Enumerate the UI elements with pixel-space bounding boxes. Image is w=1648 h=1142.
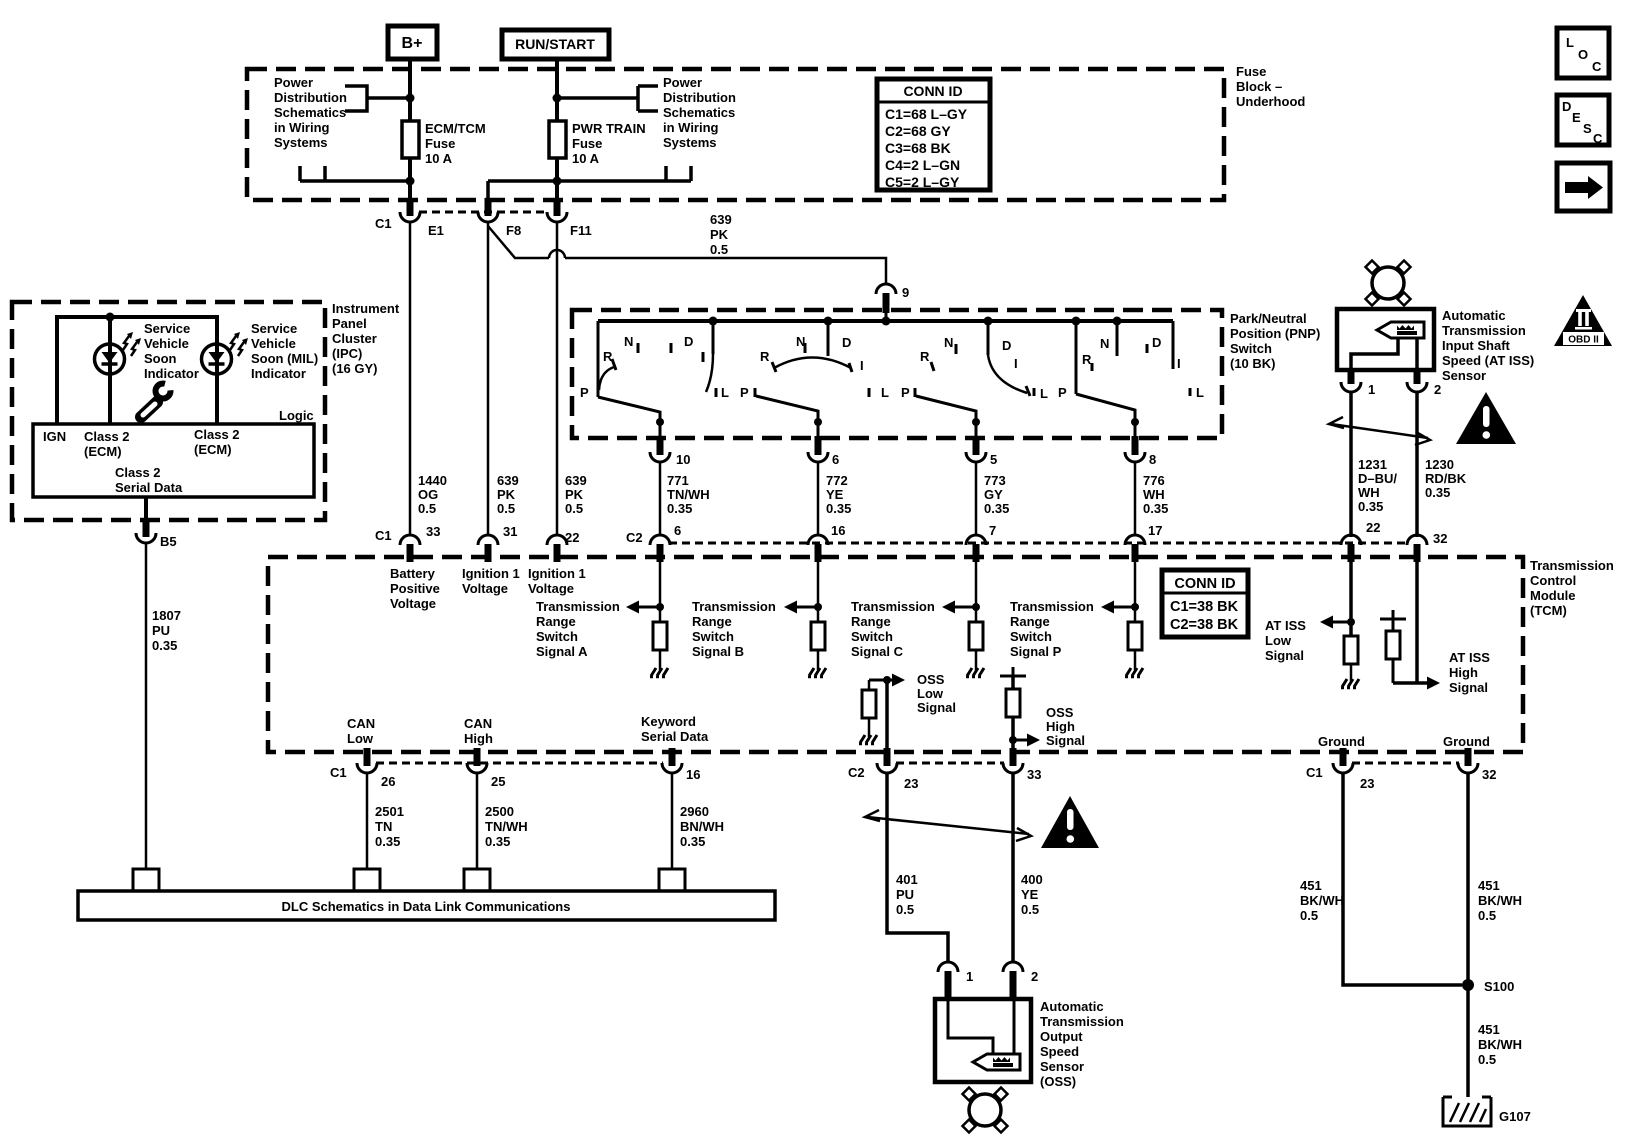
switch section A contacts	[598, 321, 716, 397]
svg-text:Logic: Logic	[279, 408, 314, 423]
svg-text:2501: 2501	[375, 804, 404, 819]
svg-text:Voltage: Voltage	[390, 596, 436, 611]
svg-text:C3=68 BK: C3=68 BK	[885, 140, 951, 156]
svg-text:CAN: CAN	[464, 716, 492, 731]
label switch P letters	[1058, 335, 1204, 400]
svg-text:Service: Service	[251, 321, 297, 336]
svg-text:TN/WH: TN/WH	[485, 819, 528, 834]
svg-text:OSS: OSS	[1046, 705, 1074, 720]
svg-text:Automatic: Automatic	[1040, 999, 1104, 1014]
svg-text:RD/BK: RD/BK	[1425, 471, 1467, 486]
svg-text:C2=38 BK: C2=38 BK	[1170, 617, 1239, 633]
svg-text:0.5: 0.5	[896, 902, 914, 917]
pin 22 TCM left	[547, 530, 579, 562]
svg-text:1807: 1807	[152, 608, 181, 623]
svg-text:AT ISS: AT ISS	[1449, 650, 1490, 665]
svg-text:PK: PK	[710, 227, 729, 242]
label class 2 ECM 1	[84, 429, 130, 459]
svg-text:E1: E1	[428, 223, 444, 238]
svg-text:Ground: Ground	[1443, 734, 1490, 749]
svg-text:400: 400	[1021, 872, 1043, 887]
label 639 PK 0.5 (F8)	[497, 473, 519, 516]
label ignition 1 voltage (31)	[462, 566, 520, 596]
wire 639 PK (F8 to TCM 31)	[487, 221, 490, 536]
label 451 BK/WH 0.5 right	[1478, 878, 1522, 923]
label 400 YE 0.5	[1021, 872, 1043, 917]
label TCM	[1530, 558, 1614, 618]
switch section B contacts	[755, 321, 869, 397]
svg-text:Fuse: Fuse	[1236, 64, 1266, 79]
svg-text:(10 BK): (10 BK)	[1230, 356, 1276, 371]
svg-text:C1: C1	[375, 216, 392, 231]
svg-text:TN/WH: TN/WH	[667, 487, 710, 502]
svg-text:Transmission: Transmission	[1010, 599, 1094, 614]
svg-text:TN: TN	[375, 819, 392, 834]
svg-text:5: 5	[990, 452, 997, 467]
svg-text:Ignition 1: Ignition 1	[462, 566, 520, 581]
ground signal B	[808, 668, 826, 677]
wire 401 PU	[887, 772, 948, 963]
pin 17 TCM	[1125, 523, 1162, 562]
svg-text:16: 16	[831, 523, 845, 538]
wire 773 GY	[975, 461, 978, 536]
svg-text:(ECM): (ECM)	[84, 444, 122, 459]
svg-text:L: L	[721, 385, 729, 400]
svg-text:(IPC): (IPC)	[332, 346, 362, 361]
pin 31 TCM	[478, 524, 517, 562]
label 2960 BN/WH 0.35	[680, 804, 724, 849]
label 1807 PU 0.35	[152, 608, 181, 653]
svg-text:L: L	[881, 385, 889, 400]
label 451 BK/WH 0.5 ground leg	[1478, 1022, 1522, 1067]
svg-text:Low: Low	[1265, 633, 1292, 648]
svg-text:Schematics: Schematics	[663, 105, 735, 120]
label OSS sensor	[1040, 999, 1124, 1089]
resistor signal B	[811, 622, 825, 650]
OBD II symbol	[1554, 295, 1612, 346]
svg-text:Range: Range	[692, 614, 732, 629]
svg-text:23: 23	[904, 776, 918, 791]
pin 25 TCM	[467, 748, 505, 789]
ground OSS low	[859, 735, 877, 744]
wire PWR TRAIN fuse bottom	[553, 158, 562, 204]
svg-text:776: 776	[1143, 473, 1165, 488]
OSS sensor box	[935, 999, 1031, 1082]
svg-text:Low: Low	[347, 731, 374, 746]
svg-text:D: D	[1562, 99, 1571, 114]
svg-text:BN/WH: BN/WH	[680, 819, 724, 834]
svg-text:Module: Module	[1530, 588, 1576, 603]
warning triangle OSS	[1041, 796, 1099, 848]
label power distribution left	[274, 75, 347, 150]
svg-text:Switch: Switch	[536, 629, 578, 644]
svg-text:33: 33	[426, 524, 440, 539]
svg-text:32: 32	[1482, 767, 1496, 782]
svg-text:33: 33	[1027, 767, 1041, 782]
svg-text:Fuse: Fuse	[572, 136, 602, 151]
svg-text:Battery: Battery	[390, 566, 436, 581]
wrench icon	[141, 376, 178, 418]
wire 776 WH	[1134, 461, 1137, 536]
svg-text:L: L	[1196, 385, 1204, 400]
signal A input arrow	[626, 562, 664, 623]
loc nav box	[1557, 28, 1609, 78]
svg-text:C1: C1	[375, 528, 392, 543]
svg-text:ECM/TCM: ECM/TCM	[425, 121, 486, 136]
pin 33 TCM C2	[1003, 748, 1041, 782]
label class 2 ECM 2	[194, 427, 240, 457]
wire 400 YE	[1011, 772, 1015, 963]
svg-text:Low: Low	[917, 686, 944, 701]
svg-text:Systems: Systems	[274, 135, 327, 150]
label 2500 TN/WH 0.35	[485, 804, 528, 849]
svg-text:Signal: Signal	[1046, 733, 1085, 748]
label 773 GY 0.35	[984, 473, 1009, 516]
svg-text:PU: PU	[896, 887, 914, 902]
svg-text:23: 23	[1360, 776, 1374, 791]
svg-text:0.5: 0.5	[710, 242, 728, 257]
B+ supply box	[388, 26, 437, 59]
svg-text:Range: Range	[1010, 614, 1050, 629]
svg-text:P: P	[1058, 385, 1067, 400]
svg-text:Fuse: Fuse	[425, 136, 455, 151]
pin 2 AT ISS	[1407, 370, 1441, 397]
fuse ECM/TCM 10A	[402, 121, 486, 166]
label transmission range switch signal C	[851, 599, 935, 659]
wire return to right bracket	[488, 166, 691, 204]
label PNP switch	[1230, 311, 1320, 371]
svg-text:25: 25	[491, 774, 505, 789]
switch section C contacts	[915, 321, 1034, 397]
label AT ISS high signal	[1449, 650, 1490, 695]
svg-text:772: 772	[826, 473, 848, 488]
wire 2960 BN/WH	[671, 772, 674, 869]
svg-text:0.35: 0.35	[667, 501, 692, 516]
ground G107	[1443, 1097, 1531, 1126]
wire resistor OSS low to ground	[868, 718, 871, 737]
svg-text:0.35: 0.35	[680, 834, 705, 849]
svg-text:1231: 1231	[1358, 457, 1387, 472]
label service vehicle soon (MIL) indicator	[251, 321, 318, 381]
svg-text:N: N	[796, 334, 805, 349]
svg-text:Switch: Switch	[1010, 629, 1052, 644]
svg-text:PK: PK	[497, 487, 516, 502]
RUN/START supply box	[502, 30, 609, 59]
wire IPC ignition bus	[57, 313, 217, 425]
svg-text:Vehicle: Vehicle	[251, 336, 296, 351]
svg-text:0.5: 0.5	[418, 501, 436, 516]
pin 5 PNP	[966, 436, 997, 467]
ground AT ISS low	[1341, 679, 1359, 688]
svg-text:D: D	[1002, 338, 1011, 353]
svg-text:C1=38 BK: C1=38 BK	[1170, 599, 1239, 615]
svg-text:0.5: 0.5	[1478, 1052, 1496, 1067]
svg-text:Signal: Signal	[1265, 648, 1304, 663]
OSS high signal node	[1000, 667, 1040, 766]
svg-text:2960: 2960	[680, 804, 709, 819]
svg-text:C4=2 L–GN: C4=2 L–GN	[885, 157, 960, 173]
DLC schematics box	[78, 891, 775, 920]
transmission control module dashed box	[268, 557, 1523, 752]
svg-text:GY: GY	[984, 487, 1003, 502]
OSS low signal node	[869, 674, 905, 767]
wire 1230 RD/BK	[1415, 391, 1419, 537]
label OSS low signal	[917, 672, 956, 715]
svg-text:451: 451	[1478, 878, 1500, 893]
svg-text:22: 22	[1366, 520, 1380, 535]
wire AT ISS internal 1	[1351, 338, 1398, 370]
CONN ID table fuse block	[877, 79, 990, 190]
svg-text:YE: YE	[1021, 887, 1039, 902]
svg-text:0.35: 0.35	[1143, 501, 1168, 516]
wire OSS internal 1	[948, 999, 993, 1053]
svg-text:C5=2 L–GY: C5=2 L–GY	[885, 174, 960, 190]
svg-text:G107: G107	[1499, 1109, 1531, 1124]
svg-text:YE: YE	[826, 487, 844, 502]
svg-text:10 A: 10 A	[425, 151, 453, 166]
svg-text:1440: 1440	[418, 473, 447, 488]
wire LED1 branch	[108, 317, 112, 424]
svg-text:OG: OG	[418, 487, 438, 502]
wire OSS internal 2	[1013, 999, 1016, 1053]
svg-text:Position (PNP): Position (PNP)	[1230, 326, 1320, 341]
svg-text:Signal B: Signal B	[692, 644, 744, 659]
svg-text:Systems: Systems	[663, 135, 716, 150]
label AT ISS sensor	[1442, 308, 1534, 383]
svg-text:D: D	[842, 335, 851, 350]
svg-text:7: 7	[989, 523, 996, 538]
pin 26 TCM	[357, 748, 395, 789]
wire resistor A to ground	[659, 650, 662, 670]
svg-text:Positive: Positive	[390, 581, 440, 596]
pin 6 PNP	[808, 436, 839, 467]
svg-text:26: 26	[381, 774, 395, 789]
svg-text:0.35: 0.35	[1425, 485, 1450, 500]
svg-text:D: D	[684, 334, 693, 349]
CONN ID table TCM	[1162, 570, 1248, 637]
svg-text:0.35: 0.35	[485, 834, 510, 849]
terminal B5 wire at DLC	[133, 869, 159, 890]
wire 639 PK branch F8 to PNP pin 9 with hop	[488, 226, 886, 285]
instrument panel cluster dashed box	[12, 302, 325, 520]
label 1231 D-BU/WH 0.35	[1358, 457, 1397, 514]
svg-text:0.35: 0.35	[1358, 499, 1383, 514]
svg-text:S100: S100	[1484, 979, 1514, 994]
svg-text:Speed: Speed	[1040, 1044, 1079, 1059]
svg-text:32: 32	[1433, 531, 1447, 546]
svg-text:WH: WH	[1143, 487, 1165, 502]
pin 8 PNP	[1125, 436, 1156, 467]
label switch C letters	[901, 335, 1048, 401]
svg-text:BK/WH: BK/WH	[1300, 893, 1344, 908]
connector row C2 TCM bottom	[848, 763, 1004, 780]
svg-text:Schematics: Schematics	[274, 105, 346, 120]
label keyword serial data	[641, 714, 709, 744]
connector C1 fuse block row	[419, 211, 548, 214]
svg-text:Class 2: Class 2	[194, 427, 240, 442]
gear icon OSS	[962, 1087, 1007, 1132]
connector row C1 TCM bottom left	[330, 763, 663, 780]
signal P input arrow	[1101, 562, 1139, 623]
wire switch A wiper to pin 10	[598, 397, 664, 438]
wire switch C wiper to pin 5	[916, 396, 980, 438]
warning triangle AT ISS	[1456, 392, 1516, 444]
node power distribution left bracket	[345, 86, 410, 111]
label 771 TN/WH 0.35	[667, 473, 710, 516]
svg-text:AT ISS: AT ISS	[1265, 618, 1306, 633]
svg-text:Signal: Signal	[1449, 680, 1488, 695]
svg-text:10: 10	[676, 452, 690, 467]
wire resistor P to ground	[1134, 650, 1137, 670]
svg-text:0.5: 0.5	[565, 501, 583, 516]
label 639 PK 0.5 (branch)	[710, 212, 732, 257]
svg-text:Voltage: Voltage	[462, 581, 508, 596]
resistor signal C	[969, 622, 983, 650]
wire resistor AT ISS low to ground	[1350, 664, 1353, 681]
svg-text:PWR TRAIN: PWR TRAIN	[572, 121, 646, 136]
svg-text:0.5: 0.5	[1478, 908, 1496, 923]
label switch A letters	[580, 334, 729, 400]
svg-text:C: C	[1592, 59, 1602, 74]
svg-text:RUN/START: RUN/START	[515, 36, 595, 52]
svg-text:R: R	[1082, 352, 1092, 367]
wire 451 BK/WH right	[1466, 772, 1470, 1097]
indicator lamp SVS MIL (LED2)	[202, 332, 249, 374]
twisted pair marker AT ISS	[1329, 417, 1430, 445]
wire 2500 TN/WH	[476, 772, 479, 869]
wire 451 BK/WH left	[1343, 772, 1462, 985]
svg-text:CAN: CAN	[347, 716, 375, 731]
resistor OSS high	[1006, 689, 1020, 717]
wire resistor C to ground	[975, 650, 978, 670]
svg-text:Indicator: Indicator	[144, 366, 199, 381]
wire AT ISS internal 2	[1415, 338, 1419, 370]
wire 771 TN/WH	[659, 461, 662, 536]
svg-text:0.35: 0.35	[375, 834, 400, 849]
svg-text:Transmission: Transmission	[1442, 323, 1526, 338]
svg-text:Switch: Switch	[692, 629, 734, 644]
pin 16 TCM bottom	[662, 748, 700, 782]
wire 1807 PU	[145, 542, 148, 869]
svg-text:Transmission: Transmission	[1530, 558, 1614, 573]
wire 772 YE	[817, 461, 820, 536]
label transmission range switch signal A	[536, 599, 620, 659]
svg-text:(TCM): (TCM)	[1530, 603, 1567, 618]
wire switch B wiper to pin 6	[756, 396, 822, 438]
svg-text:(ECM): (ECM)	[194, 442, 232, 457]
label power distribution right	[663, 75, 736, 150]
svg-text:1: 1	[966, 969, 973, 984]
label 639 PK 0.5 (F11)	[565, 473, 587, 516]
resistor signal P	[1128, 622, 1142, 650]
svg-text:B+: B+	[402, 35, 423, 52]
svg-text:N: N	[1100, 336, 1109, 351]
svg-text:N: N	[944, 335, 953, 350]
pin 33 TCM	[375, 524, 440, 562]
svg-text:Speed (AT ISS): Speed (AT ISS)	[1442, 353, 1534, 368]
svg-text:DLC Schematics in Data Link Co: DLC Schematics in Data Link Communicatio…	[282, 899, 571, 914]
svg-text:BK/WH: BK/WH	[1478, 893, 1522, 908]
resistor AT ISS low	[1344, 636, 1358, 664]
svg-text:Keyword: Keyword	[641, 714, 696, 729]
svg-text:17: 17	[1148, 523, 1162, 538]
svg-text:16: 16	[686, 767, 700, 782]
svg-text:0.35: 0.35	[152, 638, 177, 653]
svg-text:22: 22	[565, 530, 579, 545]
wire 2501 TN	[366, 772, 369, 869]
svg-text:Sensor: Sensor	[1040, 1059, 1084, 1074]
pin 23 TCM C2	[877, 748, 918, 791]
svg-text:CONN ID: CONN ID	[903, 83, 962, 99]
svg-text:Switch: Switch	[1230, 341, 1272, 356]
connector row C1 TCM bottom right	[1306, 763, 1459, 780]
svg-text:High: High	[464, 731, 493, 746]
label 1230 RD/BK 0.35	[1425, 457, 1467, 500]
svg-text:773: 773	[984, 473, 1006, 488]
svg-text:Power: Power	[663, 75, 702, 90]
svg-text:C2: C2	[626, 530, 643, 545]
svg-text:in Wiring: in Wiring	[663, 120, 719, 135]
svg-text:451: 451	[1478, 1022, 1500, 1037]
label service vehicle soon indicator	[144, 321, 199, 381]
svg-text:639: 639	[565, 473, 587, 488]
svg-text:771: 771	[667, 473, 689, 488]
svg-text:Range: Range	[851, 614, 891, 629]
svg-text:Signal P: Signal P	[1010, 644, 1062, 659]
svg-text:Signal: Signal	[917, 700, 956, 715]
resistor AT ISS high	[1386, 631, 1400, 659]
resistor OSS low	[862, 690, 876, 718]
switch section P contacts	[1076, 321, 1190, 396]
svg-text:451: 451	[1300, 878, 1322, 893]
svg-text:C2: C2	[848, 765, 865, 780]
svg-text:High: High	[1449, 665, 1478, 680]
svg-text:2: 2	[1434, 382, 1441, 397]
sensor element AT ISS	[1377, 322, 1424, 338]
svg-text:I: I	[1014, 356, 1018, 371]
AT ISS high signal node	[1380, 562, 1440, 690]
svg-text:R: R	[760, 349, 770, 364]
svg-text:Power: Power	[274, 75, 313, 90]
resistor signal A	[653, 622, 667, 650]
svg-text:(OSS): (OSS)	[1040, 1074, 1076, 1089]
svg-text:(16 GY): (16 GY)	[332, 361, 378, 376]
svg-text:Control: Control	[1530, 573, 1576, 588]
pin F11	[547, 198, 592, 238]
twisted pair marker OSS	[865, 810, 1031, 841]
svg-text:PU: PU	[152, 623, 170, 638]
svg-text:Ignition 1: Ignition 1	[528, 566, 586, 581]
label 772 YE 0.35	[826, 473, 851, 516]
svg-text:D: D	[1152, 335, 1161, 350]
svg-text:Class 2: Class 2	[115, 465, 161, 480]
wire RUN/START feed	[553, 59, 562, 121]
terminal 2500 at DLC	[464, 869, 490, 890]
label 2501 TN 0.35	[375, 804, 404, 849]
svg-text:401: 401	[896, 872, 918, 887]
svg-text:OBD II: OBD II	[1568, 335, 1599, 346]
svg-text:I: I	[860, 358, 864, 373]
svg-text:IGN: IGN	[43, 429, 66, 444]
pin 16 TCM	[808, 523, 845, 562]
label transmission range switch signal B	[692, 599, 776, 659]
signal C input arrow	[942, 562, 980, 623]
label transmission range switch signal P	[1010, 599, 1094, 659]
gear icon AT ISS	[1365, 260, 1410, 305]
wire PNP supply bus	[598, 310, 1173, 326]
svg-text:CONN ID: CONN ID	[1174, 576, 1235, 592]
svg-text:E: E	[1572, 110, 1581, 125]
